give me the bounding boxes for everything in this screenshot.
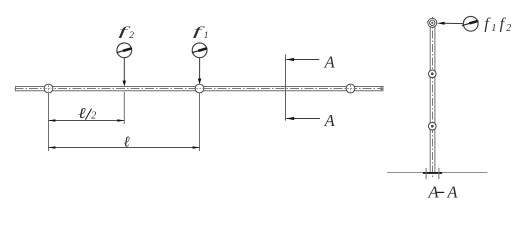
gauge f2 dial (117, 43, 133, 58)
label f1 (193, 24, 209, 41)
svg-text:A: A (324, 111, 336, 130)
joint circle right (346, 84, 355, 93)
beam plan view outline (16, 86, 384, 91)
column section view outline (430, 25, 435, 172)
label A-A (428, 182, 459, 201)
top pivot (428, 18, 437, 27)
label f1 f2 (484, 16, 511, 34)
svg-text:2: 2 (506, 23, 511, 34)
svg-text:A: A (446, 182, 458, 201)
dimension l (49, 135, 200, 151)
svg-text:A: A (324, 53, 336, 72)
force arrow f1 (198, 58, 202, 85)
section arrow bottom (286, 117, 320, 120)
svg-text:ℓ: ℓ (78, 106, 86, 122)
extension line f1 (199, 93, 201, 151)
pivot arrow (437, 22, 464, 25)
ground line (387, 172, 487, 174)
svg-text:1: 1 (204, 31, 209, 41)
force arrow f2 (123, 58, 127, 87)
svg-text:f: f (484, 16, 491, 33)
gauge right dial (462, 16, 479, 31)
svg-text:1: 1 (491, 23, 496, 34)
mid pivot lower (429, 122, 437, 130)
dimension l/2 (49, 106, 125, 122)
section line A-A (285, 54, 287, 120)
base plate (423, 172, 442, 174)
beam centerline (15, 88, 384, 90)
svg-text:ℓ: ℓ (124, 135, 130, 151)
svg-text:2: 2 (91, 110, 96, 121)
joint circle middle (195, 84, 204, 93)
base tick left (425, 168, 427, 179)
extension line f2 (123, 92, 125, 124)
mid pivot upper (429, 70, 437, 78)
svg-text:2: 2 (129, 31, 134, 41)
column centerline (432, 17, 434, 177)
section arrow top (286, 58, 319, 61)
gauge f1 dial (192, 43, 208, 58)
beam right end cap (381, 87, 384, 91)
label f2 (118, 24, 134, 41)
base tick right (438, 168, 440, 179)
extension line left (48, 93, 50, 151)
joint circle left (44, 84, 53, 93)
